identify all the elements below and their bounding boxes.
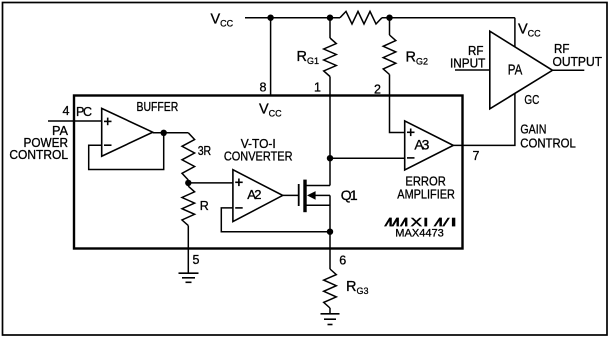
svg-text:1: 1 (314, 81, 321, 95)
svg-text:8: 8 (260, 81, 267, 95)
node wire 3R to R (187, 180, 189, 186)
svg-text:AMPLIFIER: AMPLIFIER (397, 187, 455, 201)
node Vcc/RG2 (386, 15, 392, 21)
node A3 - input (327, 155, 333, 161)
svg-text:BUFFER: BUFFER (137, 100, 179, 114)
svg-text:INPUT: INPUT (450, 57, 486, 71)
MAX4473 IC box (74, 96, 463, 249)
amplifier PA (490, 31, 553, 109)
wire GC to pin 7 (453, 93, 515, 145)
wire Q1 source to pin 6 (329, 195, 331, 269)
resistor RG3 (324, 269, 337, 308)
svg-text:A2: A2 (247, 187, 261, 202)
wire buffer feedback (89, 133, 164, 170)
svg-text:2: 2 (374, 83, 381, 97)
svg-text:GAIN: GAIN (520, 122, 546, 136)
wire pin 1 to Q1 drain (329, 77, 331, 186)
wire A2 feedback to source node (221, 208, 330, 232)
svg-text:PC: PC (76, 105, 92, 119)
svg-text:5: 5 (193, 253, 200, 267)
wire A3 - input (330, 157, 405, 159)
MAXIM logo (384, 218, 455, 227)
op-amp buffer (102, 108, 153, 156)
op-amp A2 (233, 170, 283, 222)
svg-text:7: 7 (473, 149, 480, 163)
svg-text:PA: PA (508, 62, 523, 79)
wire Vcc top rail right (382, 17, 515, 19)
ground (pin 5) (179, 273, 199, 282)
svg-text:6: 6 (339, 254, 346, 268)
wire pin 8 (270, 18, 272, 96)
svg-text:CONVERTER: CONVERTER (224, 150, 293, 164)
node buffer output (161, 130, 167, 136)
wire RF input (455, 69, 490, 71)
svg-text:R: R (200, 199, 209, 213)
resistor R (182, 186, 195, 225)
resistor RG1 (329, 18, 331, 38)
svg-text:3R: 3R (198, 144, 212, 158)
svg-text:4: 4 (63, 104, 70, 118)
svg-text:RF: RF (554, 42, 570, 56)
svg-text:GC: GC (524, 93, 539, 107)
node 3R/R (185, 180, 191, 186)
wire pin 5 (187, 226, 189, 274)
wire A2 + input (188, 182, 233, 184)
svg-text:A3: A3 (414, 137, 429, 153)
wire RF output (553, 69, 585, 71)
wire A2 output to gate (283, 194, 299, 196)
wire pin 4 input (48, 120, 102, 122)
resistor RG2 (389, 18, 391, 35)
svg-text:OUTPUT: OUTPUT (553, 55, 603, 69)
node Vcc/RG1 (327, 15, 333, 21)
resistor 3R (182, 133, 195, 180)
ground (RG3) (321, 314, 340, 325)
junction dots (161, 15, 393, 235)
wire Vcc top rail left (245, 17, 340, 19)
op-amp A3 input marks (407, 129, 415, 158)
svg-text:Q1: Q1 (341, 187, 358, 203)
resistor (between RG1 and RG2, top rail) (340, 11, 382, 24)
node Q1 source (327, 229, 333, 235)
buffer op-amp input marks (104, 118, 112, 146)
svg-text:CONTROL: CONTROL (520, 136, 576, 150)
wire buffer output (153, 132, 189, 134)
svg-text:CONTROL: CONTROL (9, 148, 68, 162)
node Vcc/pin8 (267, 15, 273, 21)
wire Vcc to PA (514, 18, 516, 47)
transistor Q1 (299, 180, 330, 213)
op-amp A2 input marks (235, 179, 243, 208)
wire pin 2 to A3 + input (390, 75, 405, 133)
svg-text:MAX4473: MAX4473 (395, 228, 444, 240)
op-amp A3 (405, 121, 454, 170)
